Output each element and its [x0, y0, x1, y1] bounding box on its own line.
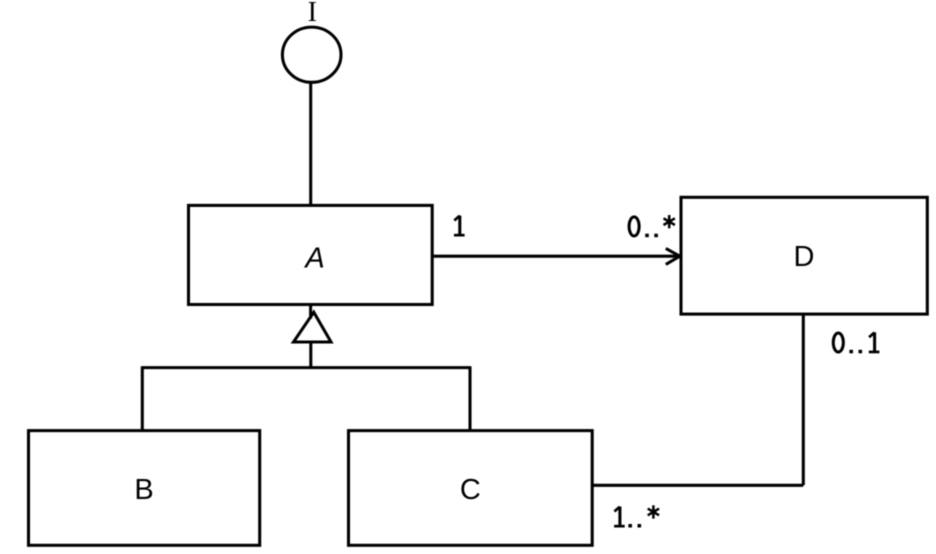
class D box [681, 197, 927, 314]
svg-text:B: B [134, 474, 153, 506]
multiplicity label 1 (near A) [454, 216, 465, 236]
multiplicity label 0..* (near D) [629, 215, 675, 237]
generalization triangle under A [294, 312, 332, 342]
class C box [349, 431, 593, 546]
wire: drop to B [141, 366, 144, 430]
class B box [29, 431, 260, 546]
svg-text:A: A [303, 243, 324, 275]
wire: drop to C [468, 366, 471, 430]
wire: A bottom stub to triangle apex [309, 305, 312, 319]
svg-text:D: D [794, 241, 815, 273]
association wire D to C: vertical segment [802, 314, 805, 485]
svg-text:C: C [460, 474, 481, 506]
open arrowhead at D [666, 248, 680, 264]
wire: lollipop stem to class A [309, 82, 312, 205]
interface lollipop circle [282, 27, 341, 82]
class A box [189, 205, 433, 304]
multiplicity label 1..* (near C) [614, 505, 659, 527]
multiplicity label 0..1 (below D) [833, 332, 879, 353]
association wire D to C: horizontal segment [592, 484, 803, 487]
wire: horizontal branch line [142, 366, 470, 369]
svg-text:I: I [308, 0, 317, 28]
wire: triangle base down to branch line [309, 342, 312, 367]
association wire A to D [434, 255, 678, 258]
